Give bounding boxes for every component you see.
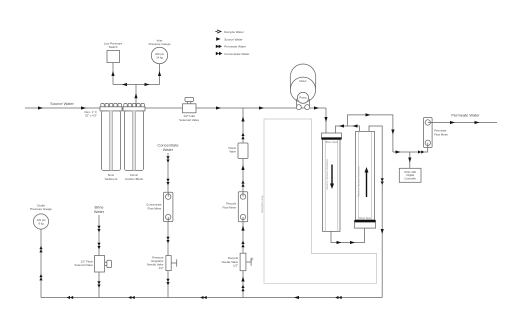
svg-text:20" x 4.5": 20" x 4.5" (85, 113, 97, 117)
pipe brine to bottom line (97, 272, 100, 298)
svg-text:Digital: Digital (406, 173, 414, 177)
inlet solenoid valve (179, 97, 199, 122)
svg-text:Motor: Motor (299, 79, 306, 83)
svg-text:Water: Water (163, 147, 174, 152)
pipe outlet gauge riser (39, 229, 42, 297)
svg-text:Pressure Gauge: Pressure Gauge (149, 42, 171, 46)
svg-text:Flow Meter: Flow Meter (222, 206, 236, 210)
pipe concentrate meter to regulator (166, 222, 169, 256)
filter housing F2 10mic carbon block (123, 103, 145, 181)
svg-text:Controller: Controller (404, 177, 416, 181)
flush solenoid valve (75, 256, 112, 273)
low pressure switch (104, 41, 123, 62)
pipe inter-vessel permeate (335, 124, 359, 133)
pipe concentrate from V2 top (369, 126, 384, 298)
pipe recycle meter to valve (241, 222, 244, 253)
svg-text:14 kg: 14 kg (156, 55, 163, 59)
pipe recycle riser upper (241, 108, 244, 192)
svg-text:Switch: Switch (109, 45, 118, 49)
pipe permeate water outlet (432, 113, 497, 125)
check valve (228, 143, 248, 159)
pipe recycle bottom feed (241, 271, 244, 298)
svg-text:1/2": 1/2" (233, 263, 238, 267)
pipe bottom concentrate line (41, 296, 382, 299)
node brine water label (94, 204, 105, 214)
pipe permeate header (348, 113, 395, 152)
pressure regulator needle valve (147, 255, 177, 270)
instrument header (113, 83, 160, 106)
recycle loop duct (250, 119, 376, 283)
label inlet size (84, 110, 97, 118)
svg-text:Flow Meter: Flow Meter (148, 206, 162, 210)
svg-text:Reverse Osmosis Membrane: Reverse Osmosis Membrane (326, 158, 329, 190)
svg-text:Flow Meter: Flow Meter (434, 132, 448, 136)
outlet pressure gauge (30, 203, 52, 229)
node concentrate water label (157, 142, 178, 152)
svg-text:Sediment: Sediment (105, 177, 118, 181)
pipe source water inlet (25, 101, 101, 110)
recycle flow meter (222, 192, 247, 222)
svg-text:Recycle Loop: Recycle Loop (260, 195, 264, 212)
svg-text:Carbon Block: Carbon Block (125, 177, 144, 181)
svg-text:Source Water: Source Water (224, 37, 242, 41)
svg-text:Valve: Valve (229, 150, 236, 154)
pipe concentrate to bottom line (166, 271, 169, 298)
legend permeate water (216, 45, 246, 49)
svg-text:8 kg: 8 kg (38, 221, 44, 225)
pump with motor (290, 64, 315, 110)
svg-text:Brine Seal: Brine Seal (326, 141, 338, 144)
legend recycle water (215, 30, 243, 34)
pipe vessel bottoms interconnect (331, 228, 365, 244)
svg-text:1/2": 1/2" (159, 266, 164, 270)
pipe brine drop to flush valve (97, 215, 100, 256)
svg-text:Permeate Water: Permeate Water (451, 113, 480, 118)
svg-text:Pump: Pump (299, 96, 307, 100)
svg-text:Recycle Water: Recycle Water (224, 30, 243, 34)
wire controller drop (408, 152, 411, 168)
filter housing F1 5mic sediment (100, 103, 122, 181)
recycle needle valve (222, 253, 252, 271)
wire switch drop (111, 63, 114, 85)
RO vessel V1 downflow (321, 133, 341, 231)
pipe permeate to flow meter (393, 148, 428, 154)
svg-text:Water: Water (94, 209, 105, 214)
svg-text:Solenoid Valve: Solenoid Valve (75, 263, 94, 267)
svg-text:Brine Seal: Brine Seal (359, 217, 371, 220)
pipe concentrate drop to meter (166, 153, 169, 192)
controller ROC-100 (399, 168, 421, 182)
svg-text:Pressure Gauge: Pressure Gauge (30, 207, 52, 211)
svg-text:ROC-100: ROC-100 (405, 170, 417, 174)
RO vessel V2 upflow (354, 131, 375, 228)
wire gauge drop (158, 64, 161, 85)
pipe between filters and junction (121, 106, 243, 109)
permeate flow meter (424, 118, 449, 148)
legend source water (216, 37, 242, 41)
legend concentrate water (216, 52, 250, 56)
svg-text:120 psi: 120 psi (37, 218, 46, 222)
svg-text:200 psi: 200 psi (155, 52, 164, 56)
pipe pump discharge drop (324, 108, 327, 133)
svg-text:Concentrate Water: Concentrate Water (224, 52, 249, 56)
svg-text:Reverse Osmosis Membrane: Reverse Osmosis Membrane (358, 165, 361, 197)
inlet pressure gauge (149, 38, 171, 63)
svg-text:Source Water: Source Water (50, 101, 74, 106)
concentrate flow meter (146, 192, 173, 221)
svg-text:Solenoid Valve: Solenoid Valve (179, 118, 199, 122)
svg-text:Permeate Water: Permeate Water (224, 45, 246, 49)
pipe junction to pump suction (243, 106, 326, 109)
